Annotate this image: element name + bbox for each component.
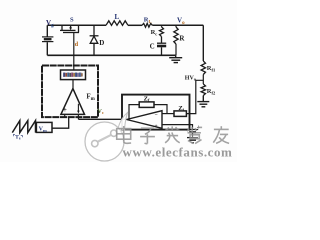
wire right branch bbox=[202, 25, 204, 61]
resistor Rc bbox=[161, 25, 163, 27]
arrow input mark bbox=[77, 104, 79, 112]
svg-text:Vo: Vo bbox=[177, 17, 185, 26]
svg-text:Zf: Zf bbox=[144, 95, 150, 102]
watermark chinese characters bbox=[117, 126, 229, 144]
wire Vm junction bbox=[52, 117, 69, 128]
reference source Vref bbox=[187, 130, 198, 138]
capacitor C bbox=[157, 37, 166, 56]
ground (below reference) bbox=[187, 138, 198, 143]
svg-text:Rc: Rc bbox=[151, 29, 158, 36]
diode D bbox=[90, 25, 99, 55]
svg-text:Rf1: Rf1 bbox=[207, 65, 216, 72]
resistor RL bbox=[142, 23, 152, 27]
svg-text:D: D bbox=[99, 39, 104, 47]
impedance Zf feedback bbox=[129, 105, 139, 119]
wire Vc (to error amp) bbox=[78, 118, 126, 120]
svg-text:Zi: Zi bbox=[178, 105, 184, 112]
svg-text:L: L bbox=[115, 13, 120, 21]
wire top rail bbox=[47, 24, 106, 26]
svg-text:d: d bbox=[75, 42, 79, 48]
svg-text:Rf2: Rf2 bbox=[207, 88, 216, 95]
resistor Rf1 bbox=[201, 61, 205, 75]
svg-text:C: C bbox=[150, 42, 155, 50]
inductor L bbox=[106, 21, 128, 26]
svg-text:HVo: HVo bbox=[185, 75, 197, 81]
wire gate drive d bbox=[73, 33, 75, 71]
svg-text:RL: RL bbox=[144, 17, 152, 24]
modulator box Fm bbox=[42, 66, 98, 118]
wire comparator left leg bbox=[64, 114, 66, 117]
impedance Zi input bbox=[162, 113, 174, 115]
svg-text:⌜Ts⌝: ⌜Ts⌝ bbox=[13, 134, 24, 142]
svg-text:+: + bbox=[63, 107, 67, 114]
wire driver to comparator bbox=[72, 80, 74, 89]
wire noninverting to reference bbox=[162, 125, 193, 129]
wire comparator right leg bbox=[77, 114, 79, 119]
resistor R bbox=[175, 25, 177, 27]
svg-text:Vc: Vc bbox=[98, 109, 104, 115]
resistor Rf2 bbox=[201, 84, 205, 96]
svg-text:Vm: Vm bbox=[39, 127, 47, 133]
svg-text:www.elecfans.com: www.elecfans.com bbox=[123, 144, 233, 159]
wire HVo tap bbox=[186, 80, 203, 113]
comparator (inside Fm) bbox=[61, 89, 85, 115]
svg-text:S: S bbox=[70, 17, 74, 24]
ground (below Rf2) bbox=[197, 96, 209, 107]
svg-text:R: R bbox=[179, 34, 185, 42]
svg-text:−: − bbox=[155, 113, 158, 119]
ground (below R) bbox=[169, 55, 182, 62]
op-amp U1 bbox=[127, 111, 162, 129]
block Vm bbox=[36, 122, 52, 132]
error amplifier box bbox=[122, 95, 190, 130]
wire divider mid bbox=[202, 75, 204, 85]
driver block bbox=[61, 70, 86, 80]
svg-text:+: + bbox=[155, 124, 158, 130]
wire bottom bus bbox=[47, 54, 175, 56]
svg-text:Fm: Fm bbox=[86, 92, 95, 101]
sawtooth source bbox=[12, 121, 35, 133]
driver text (colored) bbox=[63, 72, 83, 77]
voltage source Vg bbox=[42, 25, 53, 55]
watermark logo circle bbox=[85, 113, 128, 162]
transistor S (MOSFET) bbox=[60, 25, 79, 32]
